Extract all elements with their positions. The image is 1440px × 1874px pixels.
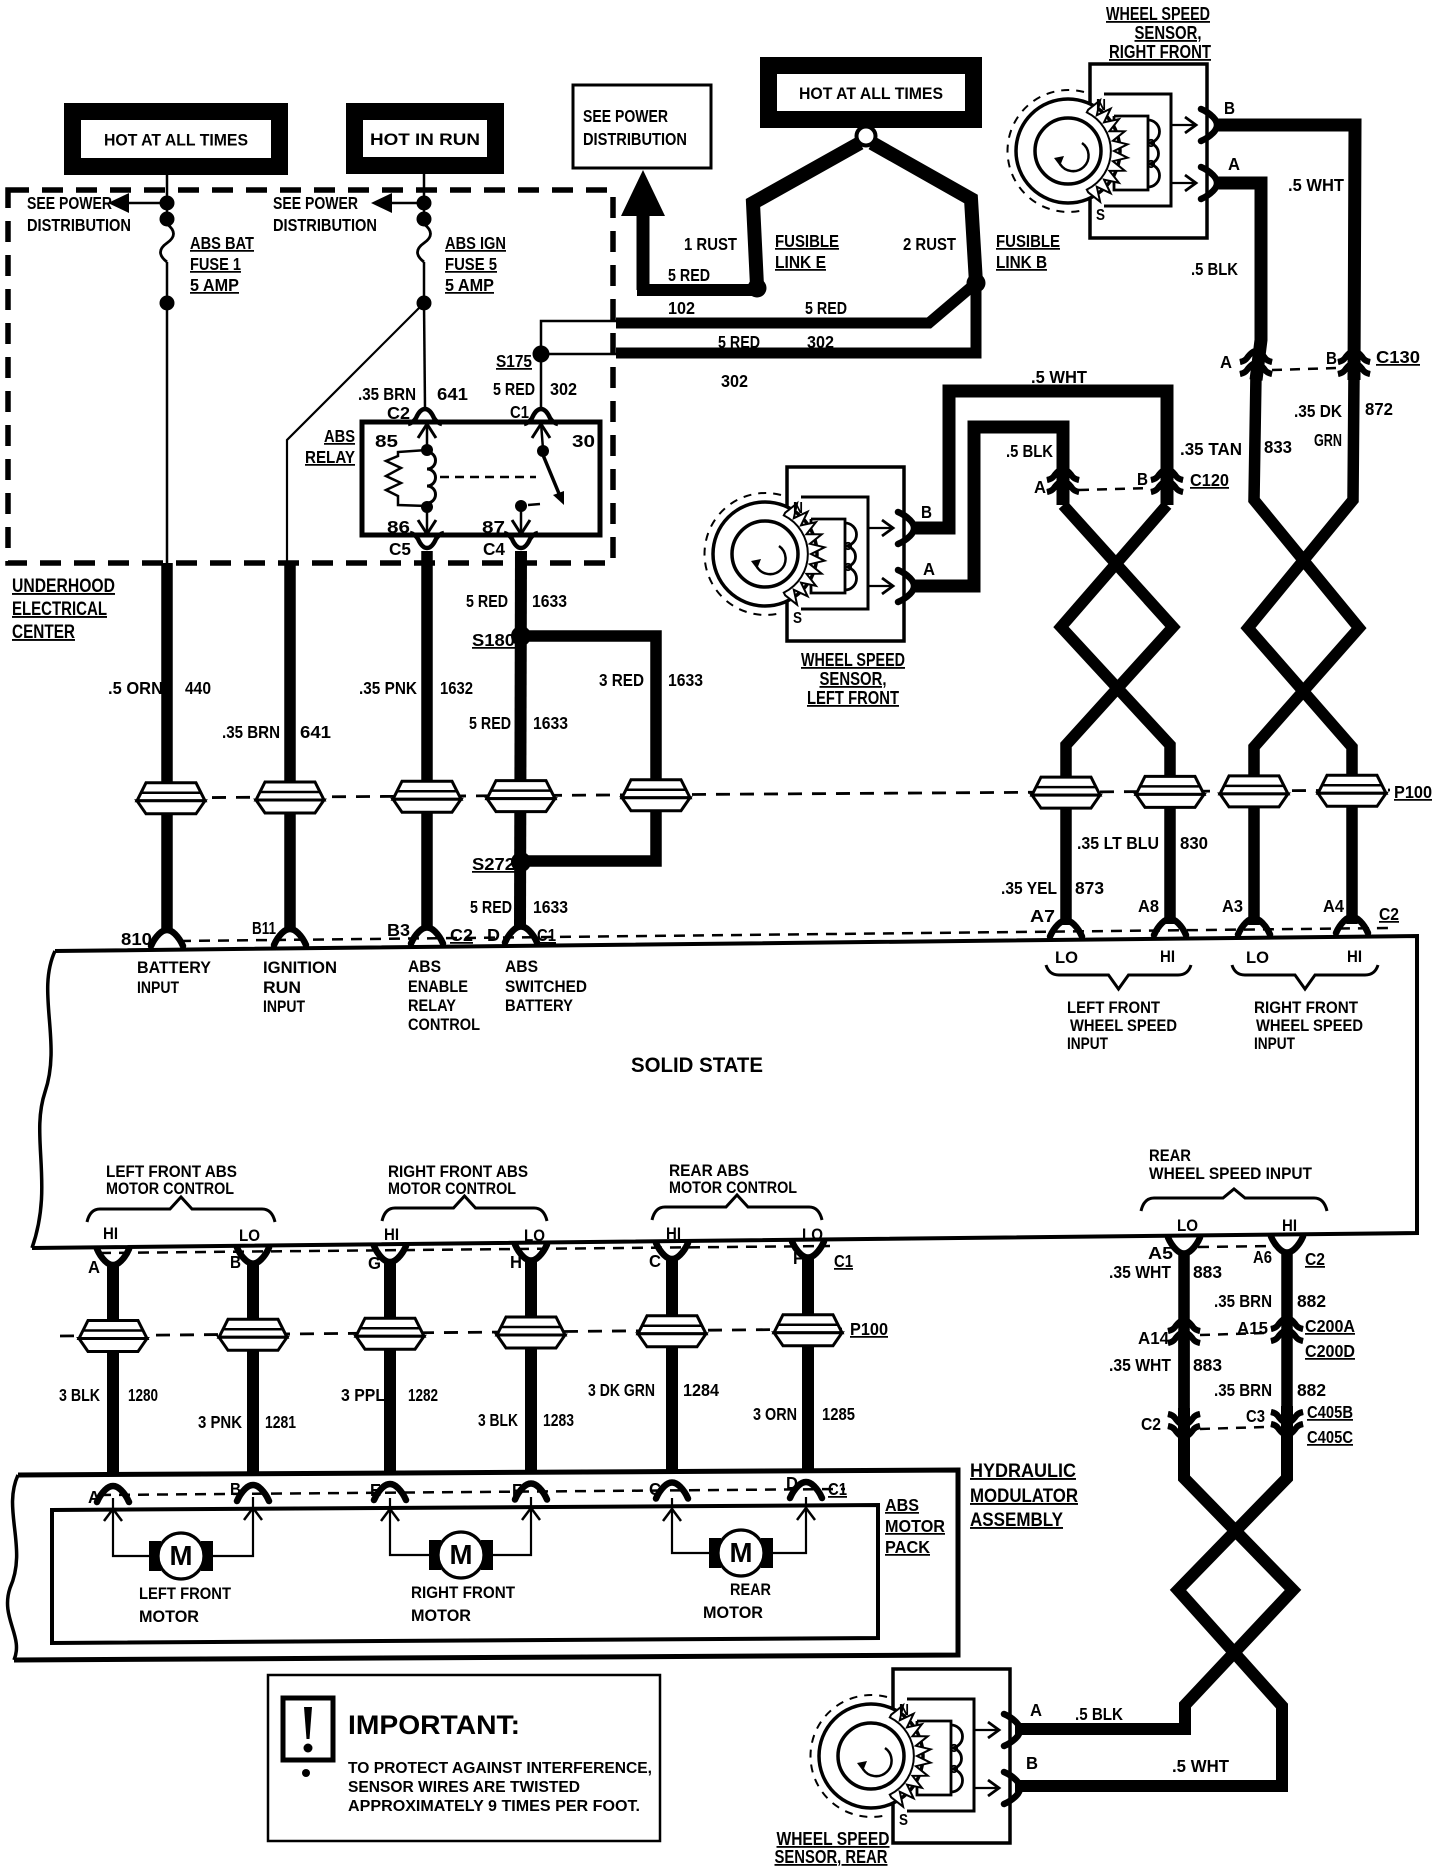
svg-text:3 BLK: 3 BLK — [59, 1385, 100, 1405]
svg-text:A14: A14 — [1138, 1328, 1169, 1348]
wire .35 BRN 641 ignition run input — [284, 563, 296, 929]
svg-text:C: C — [649, 1479, 661, 1499]
modulator connector D — [790, 1482, 822, 1498]
svg-text:HI: HI — [666, 1225, 681, 1243]
motor REAR wiring — [672, 1498, 709, 1553]
svg-text:SENSOR,: SENSOR, — [1135, 23, 1202, 43]
svg-text:5 RED: 5 RED — [493, 379, 535, 399]
ABS relay box — [362, 422, 600, 535]
module connector C — [656, 1243, 688, 1259]
grommet dashed line P100 (lower) — [60, 1329, 842, 1336]
svg-text:.35 YEL: .35 YEL — [1001, 878, 1057, 898]
wire hot-at-all-times feed to ABS BAT fuse — [166, 175, 169, 224]
svg-text:LINK B: LINK B — [996, 252, 1047, 272]
grommet P100 TAN wire — [1220, 776, 1288, 807]
see power distribution arrow (left) — [108, 193, 129, 213]
connector C120 B — [1151, 469, 1183, 492]
svg-text:SENSOR, REAR: SENSOR, REAR — [775, 1847, 888, 1867]
module connector A3 — [1238, 919, 1270, 935]
svg-text:1285: 1285 — [822, 1404, 855, 1424]
module connector B11 — [274, 929, 306, 945]
grommet P100 lower — [774, 1315, 842, 1346]
svg-text:PACK: PACK — [885, 1537, 930, 1557]
svg-text:S: S — [1096, 207, 1105, 224]
relay pin 85 — [426, 423, 429, 448]
svg-text:.5 WHT: .5 WHT — [1172, 1756, 1229, 1776]
underhood electrical center dashed box — [8, 190, 613, 563]
svg-text:85: 85 — [375, 431, 398, 451]
svg-text:LEFT FRONT ABS: LEFT FRONT ABS — [106, 1163, 237, 1181]
svg-text:810: 810 — [121, 929, 152, 949]
wire .35 YEL 873 (twisted) — [1063, 505, 1173, 925]
svg-text:C3: C3 — [1246, 1406, 1265, 1426]
svg-text:C1: C1 — [834, 1251, 853, 1271]
svg-text:2 RUST: 2 RUST — [903, 234, 956, 254]
wire hot-in-run feed to ABS IGN fuse — [423, 174, 426, 224]
svg-text:5 RED: 5 RED — [466, 591, 508, 611]
svg-text:1633: 1633 — [533, 897, 568, 917]
svg-text:873: 873 — [1075, 878, 1104, 898]
svg-text:DISTRIBUTION: DISTRIBUTION — [583, 129, 687, 149]
svg-text:RELAY: RELAY — [305, 447, 355, 467]
svg-text:A: A — [1034, 477, 1046, 497]
svg-text:C130: C130 — [1376, 347, 1420, 367]
svg-text:WHEEL SPEED: WHEEL SPEED — [1106, 4, 1210, 24]
svg-text:A6: A6 — [1253, 1247, 1272, 1267]
module connector H — [515, 1245, 547, 1261]
svg-text:.35 WHT: .35 WHT — [1109, 1355, 1171, 1375]
svg-text:P100: P100 — [1394, 782, 1432, 802]
svg-text:P100: P100 — [850, 1319, 888, 1339]
relay coil and resistor — [427, 452, 436, 503]
power feed box HOT AT ALL TIMES (left) — [64, 103, 288, 175]
svg-text:APPROXIMATELY 9 TIMES PER FOOT: APPROXIMATELY 9 TIMES PER FOOT. — [348, 1798, 640, 1815]
svg-text:LO: LO — [1246, 949, 1269, 967]
wire 3 RED 1633 branch — [521, 636, 656, 861]
svg-text:WHEEL SPEED INPUT: WHEEL SPEED INPUT — [1149, 1165, 1312, 1183]
svg-text:5 RED: 5 RED — [805, 298, 847, 318]
motor LEFT FRONT wiring — [113, 1498, 149, 1556]
svg-text:RIGHT FRONT: RIGHT FRONT — [411, 1584, 515, 1602]
svg-text:CONTROL: CONTROL — [408, 1016, 480, 1034]
svg-text:872: 872 — [1365, 399, 1393, 419]
relay pin 87 — [520, 508, 523, 532]
svg-text:B: B — [1326, 348, 1337, 368]
module connector A4 — [1336, 917, 1368, 933]
svg-text:A: A — [1228, 154, 1240, 174]
relay connector C5 — [410, 533, 444, 548]
svg-text:LO: LO — [1177, 1217, 1198, 1235]
svg-text:HOT AT ALL TIMES: HOT AT ALL TIMES — [799, 84, 943, 103]
svg-text:C2: C2 — [450, 925, 473, 945]
svg-text:REAR: REAR — [730, 1581, 771, 1599]
svg-text:ASSEMBLY: ASSEMBLY — [970, 1510, 1063, 1531]
svg-text:N: N — [899, 1702, 909, 1719]
module connector A5 — [1168, 1238, 1200, 1254]
svg-text:C4: C4 — [483, 539, 505, 559]
svg-text:.35 BRN: .35 BRN — [358, 384, 416, 404]
wheel speed sensor left front — [705, 467, 914, 641]
important note box — [268, 1675, 660, 1841]
relay pin 30 — [541, 423, 543, 449]
svg-text:641: 641 — [300, 722, 331, 742]
svg-text:C405B: C405B — [1307, 1402, 1353, 1422]
svg-text:DISTRIBUTION: DISTRIBUTION — [27, 215, 131, 235]
grommet P100 lower — [79, 1321, 147, 1352]
svg-text:C2: C2 — [1379, 904, 1399, 924]
svg-text:A: A — [88, 1257, 100, 1277]
module connector G — [374, 1246, 406, 1262]
svg-text:ABS: ABS — [408, 958, 441, 976]
fusible link B leg — [872, 143, 976, 283]
svg-text:B: B — [1137, 469, 1148, 489]
wire .35 WHT 883 — [1178, 1253, 1190, 1410]
svg-text:SEE POWER: SEE POWER — [273, 193, 358, 213]
svg-text:ENABLE: ENABLE — [408, 978, 468, 996]
svg-text:E: E — [370, 1480, 381, 1500]
svg-text:.5 BLK: .5 BLK — [1075, 1704, 1123, 1724]
svg-text:882: 882 — [1297, 1291, 1326, 1311]
svg-text:G: G — [368, 1253, 381, 1273]
svg-text:FUSE 5: FUSE 5 — [445, 254, 497, 274]
svg-text:1280: 1280 — [128, 1385, 158, 1405]
svg-text:B: B — [230, 1252, 241, 1272]
relay coil-switch dashed link — [440, 476, 536, 479]
relay connector C2 — [408, 409, 442, 424]
svg-text:86: 86 — [387, 517, 410, 537]
svg-text:3 RED: 3 RED — [599, 670, 644, 690]
svg-text:.5 WHT: .5 WHT — [1288, 175, 1344, 195]
svg-text:C200D: C200D — [1305, 1341, 1355, 1361]
svg-text:RUN: RUN — [263, 979, 301, 997]
module connector F — [792, 1242, 824, 1258]
svg-text:HI: HI — [1282, 1217, 1297, 1235]
svg-text:S272: S272 — [472, 854, 515, 874]
svg-text:S180: S180 — [472, 630, 515, 650]
svg-text:A: A — [1030, 1700, 1042, 1720]
svg-text:5 RED: 5 RED — [470, 897, 512, 917]
fusible link E leg — [753, 143, 860, 286]
modulator connector dashed line — [100, 1489, 845, 1495]
svg-text:RIGHT FRONT: RIGHT FRONT — [1254, 999, 1358, 1017]
svg-text:.35 PNK: .35 PNK — [359, 678, 417, 698]
note box SEE POWER DISTRIBUTION — [573, 85, 711, 168]
svg-text:LEFT FRONT: LEFT FRONT — [139, 1585, 231, 1603]
connector C200 A14 — [1168, 1320, 1200, 1343]
svg-text:1282: 1282 — [408, 1385, 438, 1405]
power feed box HOT AT ALL TIMES (middle) — [760, 57, 982, 128]
svg-text:SENSOR,: SENSOR, — [820, 669, 887, 689]
splice ring at links — [857, 127, 876, 146]
grommet P100 BRN wire — [256, 782, 324, 813]
grommet P100 YEL wire — [1032, 777, 1100, 808]
svg-text:ABS IGN: ABS IGN — [445, 233, 506, 253]
modulator connector A — [97, 1486, 129, 1502]
svg-text:IGNITION: IGNITION — [263, 959, 337, 977]
connector chevrons overlay — [1168, 1320, 1200, 1343]
svg-text:N: N — [793, 500, 803, 517]
wire .5 ORN 440 battery input — [161, 563, 173, 930]
motor LEFT FRONT — [149, 1541, 161, 1571]
svg-text:5 RED: 5 RED — [668, 265, 710, 285]
grommet P100 lower — [497, 1317, 565, 1348]
svg-text:TO PROTECT AGAINST INTERFERENC: TO PROTECT AGAINST INTERFERENCE, — [348, 1760, 652, 1777]
svg-text:FUSIBLE: FUSIBLE — [775, 231, 839, 251]
splice S272 — [511, 852, 531, 872]
wire 3 BLK 1280 — [107, 1264, 119, 1474]
svg-text:C2: C2 — [1141, 1414, 1161, 1434]
svg-text:F: F — [512, 1480, 522, 1500]
svg-text:ABS: ABS — [885, 1495, 919, 1515]
grommet P100 RED wire — [487, 781, 555, 812]
svg-text:RELAY: RELAY — [408, 997, 456, 1015]
svg-text:A: A — [1220, 352, 1232, 372]
svg-text:.5 ORN: .5 ORN — [108, 678, 163, 698]
grommet P100 DKGRN wire — [1318, 775, 1386, 806]
svg-text:N: N — [1096, 97, 1106, 114]
svg-text:D: D — [487, 925, 500, 945]
motor REAR — [709, 1538, 721, 1568]
svg-text:ABS: ABS — [505, 958, 538, 976]
connector C405 C2 — [1168, 1414, 1200, 1437]
wire 3 BLK 1283 — [525, 1261, 537, 1472]
svg-text:A8: A8 — [1138, 896, 1159, 916]
relay switch arm — [543, 455, 560, 496]
svg-text:WHEEL SPEED: WHEEL SPEED — [801, 650, 905, 670]
svg-text:641: 641 — [437, 384, 468, 404]
svg-text:30: 30 — [572, 431, 595, 451]
wire 102 (5 RED) — [616, 283, 976, 323]
svg-text:BATTERY: BATTERY — [137, 959, 211, 977]
svg-text:LEFT FRONT: LEFT FRONT — [807, 688, 899, 708]
svg-text:830: 830 — [1180, 833, 1208, 853]
svg-text:C2: C2 — [1305, 1249, 1325, 1269]
relay pin 86 — [426, 508, 429, 532]
wire ignition run branch (diagonal) — [287, 303, 424, 563]
svg-text:M: M — [730, 1537, 753, 1568]
wire .5 WHT rear (twisted) — [1015, 1406, 1287, 1786]
svg-text:INPUT: INPUT — [1254, 1035, 1295, 1053]
svg-text:UNDERHOOD: UNDERHOOD — [12, 576, 115, 597]
wire 5 RED 1633 switched battery — [520, 551, 521, 926]
svg-text:A3: A3 — [1222, 896, 1243, 916]
wire 3 DK GRN 1284 — [666, 1260, 678, 1472]
splice S175 — [541, 321, 620, 354]
module connector A — [97, 1249, 129, 1265]
svg-text:MOTOR: MOTOR — [703, 1604, 763, 1622]
grommet P100 lower — [219, 1319, 287, 1350]
svg-text:833: 833 — [1264, 437, 1292, 457]
see power distribution arrow (second) — [371, 193, 392, 213]
connector C130 A — [1240, 351, 1272, 374]
svg-text:A5: A5 — [1148, 1243, 1173, 1263]
svg-text:3 ORN: 3 ORN — [753, 1404, 797, 1424]
wire .5 BLK rear (twisted) — [1015, 1408, 1293, 1729]
svg-text:MOTOR CONTROL: MOTOR CONTROL — [669, 1179, 797, 1197]
svg-text:B11: B11 — [252, 918, 276, 938]
power distribution arrow symbol — [621, 170, 665, 216]
power feed box HOT IN RUN — [346, 103, 504, 174]
module connector A7 — [1050, 921, 1082, 937]
svg-text:5 RED: 5 RED — [469, 713, 511, 733]
wire 3 PNK 1281 — [247, 1263, 259, 1473]
svg-text:3 PNK: 3 PNK — [198, 1412, 242, 1432]
wire 3 ORN 1285 — [802, 1258, 814, 1470]
svg-text:B: B — [1224, 98, 1235, 118]
svg-text:BATTERY: BATTERY — [505, 997, 573, 1015]
wire .35 WHT 883 (lower) — [1178, 1337, 1190, 1410]
svg-text:440: 440 — [185, 678, 211, 698]
svg-text:A: A — [923, 559, 935, 579]
svg-text:M: M — [170, 1540, 193, 1571]
wire 302 (5 RED) — [616, 283, 976, 353]
svg-text:1 RUST: 1 RUST — [684, 234, 737, 254]
svg-text:C120: C120 — [1190, 470, 1229, 490]
svg-text:B: B — [1026, 1753, 1038, 1773]
svg-text:LO: LO — [524, 1227, 545, 1245]
svg-text:883: 883 — [1193, 1262, 1222, 1282]
module connector B — [237, 1248, 269, 1264]
wire .5 BLK left front A — [911, 427, 1063, 586]
svg-text:A: A — [88, 1487, 100, 1507]
svg-text:C1: C1 — [828, 1479, 847, 1499]
svg-text:A15: A15 — [1237, 1318, 1268, 1338]
svg-text:RIGHT FRONT: RIGHT FRONT — [1109, 42, 1211, 62]
svg-text:C1: C1 — [510, 402, 529, 422]
wheel speed sensor right front — [1008, 64, 1217, 238]
svg-text:C405C: C405C — [1307, 1427, 1353, 1447]
module connector D — [505, 927, 537, 943]
svg-text:HI: HI — [1160, 948, 1175, 966]
wire .5 BLK right front A — [1214, 183, 1261, 380]
svg-text:LEFT FRONT: LEFT FRONT — [1067, 999, 1160, 1017]
svg-text:GRN: GRN — [1314, 430, 1342, 450]
svg-text:S: S — [899, 1812, 908, 1829]
connector C200 A15 — [1271, 1318, 1303, 1341]
svg-text:3 PPL: 3 PPL — [341, 1385, 385, 1405]
svg-text:REAR: REAR — [1149, 1147, 1191, 1165]
svg-text:LINK E: LINK E — [775, 252, 826, 272]
svg-text:HOT IN RUN: HOT IN RUN — [370, 130, 480, 149]
svg-text:F: F — [793, 1248, 803, 1268]
svg-text:883: 883 — [1193, 1355, 1222, 1375]
svg-text:302: 302 — [721, 371, 748, 391]
motor RIGHT FRONT wiring — [390, 1498, 429, 1555]
module connector face dashed line — [180, 928, 1390, 941]
grommet P100 LTBLU wire — [1136, 776, 1204, 807]
svg-text:SENSOR WIRES ARE TWISTED: SENSOR WIRES ARE TWISTED — [348, 1779, 580, 1796]
svg-text:LO: LO — [239, 1227, 260, 1245]
svg-text:INPUT: INPUT — [263, 998, 305, 1016]
svg-text:1281: 1281 — [265, 1412, 296, 1432]
svg-text:HI: HI — [1347, 948, 1362, 966]
svg-text:1633: 1633 — [533, 713, 568, 733]
svg-text:HI: HI — [103, 1225, 118, 1243]
svg-text:SOLID STATE: SOLID STATE — [631, 1054, 763, 1077]
wire S175 to relay C1 — [540, 354, 543, 408]
svg-text:B: B — [230, 1479, 241, 1499]
svg-text:MOTOR: MOTOR — [411, 1607, 471, 1625]
svg-text:302: 302 — [550, 379, 577, 399]
grommet dashed line P100 — [140, 790, 1390, 798]
motor RIGHT FRONT — [429, 1540, 441, 1570]
wire .35 BRN 882 — [1281, 1252, 1293, 1408]
wire .35 TAN 833 (twisted) — [1254, 375, 1359, 925]
grommet P100 PNK wire — [393, 781, 461, 812]
svg-text:.35 LT BLU: .35 LT BLU — [1077, 833, 1159, 853]
svg-text:.35 BRN: .35 BRN — [1214, 1380, 1272, 1400]
svg-text:1284: 1284 — [683, 1380, 719, 1400]
svg-text:IMPORTANT:: IMPORTANT: — [348, 1710, 520, 1740]
svg-text:RIGHT FRONT ABS: RIGHT FRONT ABS — [388, 1163, 528, 1181]
svg-text:SEE POWER: SEE POWER — [27, 193, 112, 213]
svg-text:C200A: C200A — [1305, 1316, 1355, 1336]
svg-text:INPUT: INPUT — [1067, 1035, 1108, 1053]
svg-text:1633: 1633 — [532, 591, 567, 611]
grommet P100 ORN wire — [137, 783, 205, 814]
svg-text:LO: LO — [802, 1226, 823, 1244]
svg-text:5 RED: 5 RED — [718, 332, 760, 352]
svg-text:C5: C5 — [389, 539, 411, 559]
solid state control module box — [32, 936, 1417, 1248]
svg-text:.5 BLK: .5 BLK — [1006, 441, 1053, 461]
svg-text:5 AMP: 5 AMP — [190, 275, 239, 295]
grommet P100 3RED wire — [622, 780, 690, 811]
svg-text:REAR ABS: REAR ABS — [669, 1162, 749, 1180]
svg-text:ABS: ABS — [324, 426, 355, 446]
svg-text:FUSIBLE: FUSIBLE — [996, 231, 1060, 251]
svg-text:3 DK GRN: 3 DK GRN — [588, 1380, 655, 1400]
wheel speed sensor rear — [811, 1669, 1020, 1843]
svg-text:5 AMP: 5 AMP — [445, 275, 494, 295]
svg-text:1633: 1633 — [668, 670, 703, 690]
svg-text:MOTOR: MOTOR — [885, 1516, 945, 1536]
svg-text:M: M — [450, 1539, 473, 1570]
svg-text:MOTOR CONTROL: MOTOR CONTROL — [106, 1180, 234, 1198]
modulator connector C — [656, 1483, 688, 1499]
wire .35 LT BLU 830 (twisted) — [1061, 505, 1170, 924]
wire .35 DK GRN 872 (twisted) — [1248, 375, 1354, 924]
svg-text:102: 102 — [668, 298, 695, 318]
svg-text:C1: C1 — [537, 925, 556, 945]
modulator connector E — [374, 1484, 406, 1500]
svg-text:S175: S175 — [496, 351, 532, 371]
svg-text:A7: A7 — [1030, 906, 1055, 926]
connector C405 C3 — [1271, 1412, 1303, 1435]
svg-text:3 BLK: 3 BLK — [478, 1410, 518, 1430]
svg-text:MOTOR: MOTOR — [139, 1608, 199, 1626]
svg-text:WHEEL SPEED: WHEEL SPEED — [1070, 1017, 1177, 1035]
module bottom connector dashed line — [100, 1246, 830, 1253]
svg-text:882: 882 — [1297, 1380, 1326, 1400]
wire .5 WHT left front B — [911, 391, 1167, 528]
relay connector C1 — [524, 409, 558, 424]
svg-text:WHEEL SPEED: WHEEL SPEED — [1256, 1017, 1363, 1035]
wire .35 PNK 1632 relay control — [421, 551, 433, 927]
connector C130 B — [1338, 351, 1370, 374]
svg-text:B: B — [921, 502, 932, 522]
svg-text:DISTRIBUTION: DISTRIBUTION — [273, 215, 377, 235]
svg-text:S: S — [793, 610, 802, 627]
svg-text:ABS BAT: ABS BAT — [190, 233, 254, 253]
svg-text:LO: LO — [1055, 949, 1078, 967]
svg-text:HYDRAULIC: HYDRAULIC — [970, 1461, 1076, 1482]
module connector 810 — [151, 930, 183, 946]
svg-text:1632: 1632 — [440, 678, 473, 698]
svg-text:FUSE 1: FUSE 1 — [190, 254, 241, 274]
wire .5 WHT right front B — [1214, 125, 1355, 380]
svg-text:ELECTRICAL: ELECTRICAL — [12, 599, 107, 620]
